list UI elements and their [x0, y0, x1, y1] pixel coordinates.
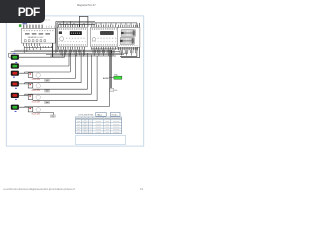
label D3: [13, 77, 15, 78]
wire drop row4a: [80, 52, 82, 82]
wire row3 upper: [25, 71, 71, 73]
wire drop row1: [64, 52, 66, 57]
svg-text:v1.0 sim: v1.0 sim: [44, 20, 51, 22]
notes box: [76, 135, 126, 144]
LED D6: [11, 105, 19, 110]
wire collector 2: [11, 51, 120, 53]
wire bus left bend 2: [56, 23, 58, 52]
wire row1: [19, 56, 65, 58]
PLC block U1: [21, 25, 55, 46]
label SV1: [22, 23, 27, 24]
wire collector 4: [46, 54, 124, 56]
label D4: [15, 88, 17, 89]
wire drop row5b: [96, 56, 98, 101]
wire drop row6a: [108, 52, 110, 106]
relay RL2: [28, 83, 33, 88]
wire collector 1: [14, 49, 111, 51]
wire row6 lower: [33, 112, 54, 115]
schematic sheet frame: [6, 16, 143, 146]
pin numbers above U4: [119, 23, 139, 25]
terminal GND row3: [45, 79, 50, 82]
wire top bus 2: [57, 22, 137, 24]
wire row3 led link: [19, 72, 25, 73]
LED D2: [11, 63, 19, 68]
lamp L2: [36, 84, 40, 88]
svg-text:LISTA MATERIAL: LISTA MATERIAL: [78, 113, 95, 116]
wire U1 outputs left: [24, 47, 53, 49]
parts table grid: [76, 117, 122, 134]
wire row3 led to relay: [25, 72, 29, 74]
parts table sheet box: [111, 112, 121, 116]
wire right feeder 1: [120, 23, 137, 57]
svg-text:RL-05 24V: RL-05 24V: [32, 90, 41, 92]
lamp L3: [36, 95, 40, 99]
wire row2: [19, 65, 69, 67]
wire drop row2: [68, 53, 70, 66]
LED D5: [11, 93, 19, 98]
LED D1: [11, 55, 19, 60]
wire row5 led link: [19, 94, 25, 95]
lamp L1: [36, 73, 40, 77]
pin numbers above U3: [92, 23, 117, 25]
wire top bus 1: [56, 20, 95, 22]
svg-text:RL-05 24V: RL-05 24V: [32, 101, 41, 103]
wire row3 lower: [33, 78, 76, 80]
wire drop row3a: [69, 53, 71, 72]
svg-text:TAB-1: TAB-1: [97, 113, 102, 116]
stepper driver A4988: [103, 73, 122, 92]
driver IC U3: [91, 25, 118, 50]
wire bus drops: [60, 21, 131, 24]
wire right feeder 2: [121, 23, 139, 58]
wire drop row3b: [74, 55, 76, 79]
wire top bus 3: [58, 23, 95, 25]
wire stubs under U3: [93, 50, 114, 53]
terminal GND row4: [45, 89, 50, 92]
wire row4 upper: [25, 82, 82, 84]
terminal GND row5: [45, 101, 50, 104]
svg-text:A4988: A4988: [103, 77, 108, 80]
wire drop row5a: [90, 55, 92, 95]
wire collector 5: [50, 55, 116, 57]
svg-text:HOJA 1: HOJA 1: [112, 113, 118, 116]
LED D4: [11, 81, 19, 86]
wire stepper feed: [110, 50, 112, 91]
wire row5 upper: [25, 93, 92, 95]
PDF badge: [0, 0, 45, 23]
wire bus riser loop: [79, 16, 88, 27]
svg-text:GND: GND: [114, 90, 118, 92]
page number: [140, 189, 143, 191]
wire U1 to row1: [52, 43, 54, 57]
wire row6 led to relay: [25, 106, 29, 108]
svg-text:RL-05 24V: RL-05 24V: [32, 114, 41, 116]
wire collector 6: [91, 48, 137, 50]
label D1: [13, 53, 15, 54]
terminal GND row6: [50, 115, 55, 117]
wire stubs under U2: [60, 50, 84, 53]
relay RL4: [28, 107, 33, 112]
print header title: [12, 5, 161, 7]
svg-text:RL-05 24V: RL-05 24V: [32, 79, 41, 81]
wire row6 led link: [19, 106, 25, 109]
svg-text:SIEMENS LOGO!: SIEMENS LOGO!: [28, 37, 44, 39]
label D2: [15, 62, 17, 63]
parts table rev box: [96, 112, 106, 116]
wire row4 led link: [19, 83, 25, 84]
relay RL3: [28, 95, 33, 100]
wire row6 upper: [25, 106, 110, 108]
wire row4 led to relay: [25, 83, 29, 85]
print footer url: [3, 189, 75, 191]
display module U4: [117, 25, 139, 50]
wire bus left bend 1: [55, 21, 57, 53]
wire row4 lower: [33, 88, 88, 90]
wire LED1 left leg: [9, 53, 11, 57]
wire drop row4b: [86, 53, 88, 89]
relay RL1: [28, 73, 33, 78]
label D5: [15, 99, 17, 100]
wire row5 led to relay: [25, 94, 29, 96]
wire stubs under U4: [120, 50, 136, 53]
label D6: [15, 111, 17, 112]
LED power indicator on U1: [19, 24, 22, 27]
wire collector 3: [9, 52, 128, 54]
driver IC U2: [57, 25, 87, 50]
lamp L4: [36, 108, 40, 112]
LED D3: [11, 71, 19, 76]
wire row5 lower: [33, 100, 97, 102]
